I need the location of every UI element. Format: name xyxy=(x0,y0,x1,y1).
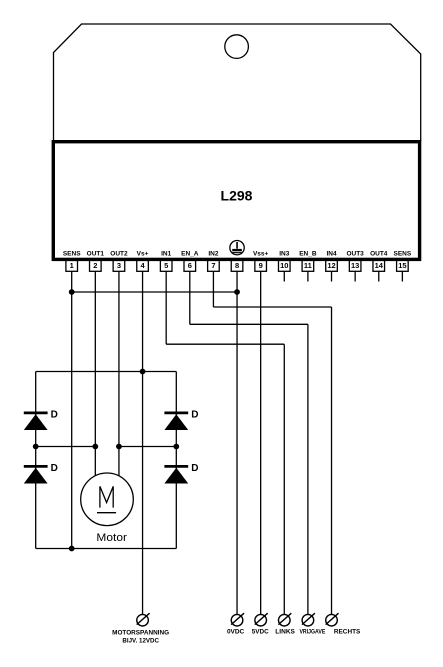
svg-text:2: 2 xyxy=(93,261,97,270)
pin 7 number box xyxy=(208,260,220,271)
wire stub pin12 (unconnected) xyxy=(331,271,333,281)
diode D upper-right xyxy=(164,413,188,430)
svg-text:13: 13 xyxy=(351,261,359,270)
svg-text:SENS: SENS xyxy=(63,250,81,257)
terminal MOTORSPANNING circle with slash xyxy=(137,613,150,626)
svg-text:IN4: IN4 xyxy=(326,250,337,257)
wire IN2 horizontal segment to RECHTS column xyxy=(213,306,331,308)
svg-text:Motor: Motor xyxy=(96,532,127,544)
svg-text:12: 12 xyxy=(327,261,335,270)
svg-text:EN_B: EN_B xyxy=(299,250,317,257)
svg-text:5: 5 xyxy=(164,261,168,270)
motor M glyph underline xyxy=(97,512,116,514)
pin 15 number box xyxy=(397,260,409,271)
node junction dot pin1 on SENS net xyxy=(69,289,75,295)
pin 1 number box xyxy=(66,260,78,271)
node junction dot left leg mid xyxy=(33,444,39,450)
svg-text:OUT4: OUT4 xyxy=(370,250,388,257)
wire bridge top rail (Vs+) xyxy=(36,371,177,373)
wire stub pin15 (unconnected) xyxy=(401,271,403,281)
pin 6 number box xyxy=(184,260,196,271)
IC U1 L298 package tab outline xyxy=(54,24,421,141)
terminal 0VDC circle with slash xyxy=(231,613,244,626)
wire LINKS column down to terminal xyxy=(283,344,285,614)
svg-text:RECHTS: RECHTS xyxy=(334,629,361,636)
svg-text:D: D xyxy=(51,463,58,474)
terminal RECHTS circle with slash xyxy=(326,613,339,626)
svg-text:IN2: IN2 xyxy=(208,250,219,257)
wire pin9 Vss+ down to 5VDC terminal xyxy=(260,271,262,614)
svg-text:D: D xyxy=(191,409,198,420)
IC U1 mounting hole xyxy=(225,35,249,59)
svg-text:VRIJGAVE: VRIJGAVE xyxy=(299,629,325,636)
svg-text:Vs+: Vs+ xyxy=(137,250,149,257)
wire bridge left leg xyxy=(35,372,37,549)
node junction dot right leg mid xyxy=(173,444,179,450)
pin 11 number box xyxy=(302,260,314,271)
wire bridge bottom rail (SENS) xyxy=(36,548,177,550)
wire stub pin10 (unconnected) xyxy=(283,271,285,281)
svg-text:Vss+: Vss+ xyxy=(253,250,269,257)
pin 4 number box xyxy=(137,260,149,271)
wire pin8 GND down to 0VDC terminal xyxy=(236,271,238,614)
svg-text:EN_A: EN_A xyxy=(181,250,199,257)
svg-text:D: D xyxy=(191,463,198,474)
pin 13 number box xyxy=(349,260,361,271)
wire VRIJGAVE column down to terminal xyxy=(307,324,309,614)
svg-text:0VDC: 0VDC xyxy=(227,629,245,636)
svg-text:OUT1: OUT1 xyxy=(87,250,105,257)
node junction dot pin8 on GND net xyxy=(234,289,240,295)
wire pin4 Vs+ down to MOTORSPANNING terminal xyxy=(142,271,144,614)
svg-text:3: 3 xyxy=(117,261,121,270)
svg-text:5VDC: 5VDC xyxy=(252,629,269,636)
svg-text:D: D xyxy=(51,409,58,420)
pin 9 number box xyxy=(255,260,267,271)
motor M1 circle xyxy=(81,473,134,526)
wire stub pin14 (unconnected) xyxy=(378,271,380,281)
svg-text:6: 6 xyxy=(188,261,192,270)
wire pin1 to pin8 SENS-to-GND horizontal xyxy=(72,291,237,293)
pin 5 number box xyxy=(160,260,172,271)
wire pin2 OUT1 down to motor left terminal xyxy=(94,271,96,476)
wire bridge right mid rail xyxy=(119,446,176,448)
svg-text:BIJV. 12VDC: BIJV. 12VDC xyxy=(122,638,159,645)
svg-text:IN1: IN1 xyxy=(161,250,172,257)
svg-text:SENS: SENS xyxy=(394,250,412,257)
svg-text:IN3: IN3 xyxy=(279,250,290,257)
svg-text:OUT3: OUT3 xyxy=(346,250,364,257)
wire bridge right leg xyxy=(175,372,177,549)
svg-text:15: 15 xyxy=(398,261,406,270)
diode D upper-left xyxy=(24,413,48,430)
pin 8 number box xyxy=(231,260,243,271)
ground symbol pin8 label (protective earth in circle) xyxy=(230,241,244,255)
svg-text:MOTORSPANNING: MOTORSPANNING xyxy=(112,629,169,636)
node junction dot OUT2 / motor right xyxy=(116,444,122,450)
wire bridge left mid rail xyxy=(36,446,96,448)
node junction dot OUT1 / motor left xyxy=(92,444,98,450)
wire stub pin13 (unconnected) xyxy=(354,271,356,281)
wire IN1 horizontal segment to LINKS column xyxy=(166,343,284,345)
svg-text:10: 10 xyxy=(280,261,288,270)
svg-text:OUT2: OUT2 xyxy=(110,250,128,257)
pin 3 number box xyxy=(113,260,125,271)
pin 12 number box xyxy=(326,260,338,271)
wire pin7 IN2 vertical segment xyxy=(212,271,214,307)
wire pin6 EN_A vertical segment xyxy=(189,271,191,324)
wire EN_A horizontal segment to VRIJGAVE column xyxy=(190,323,308,325)
wire stub pin11 (unconnected) xyxy=(307,271,309,281)
svg-text:L298: L298 xyxy=(221,188,253,204)
svg-text:9: 9 xyxy=(259,261,263,270)
svg-text:8: 8 xyxy=(235,261,239,270)
wire pin1 SENS down to bridge bottom rail xyxy=(71,271,73,548)
IC U1 body rectangle xyxy=(53,142,419,260)
svg-text:LINKS: LINKS xyxy=(275,629,295,636)
wire pin3 OUT2 down to motor right terminal xyxy=(118,271,120,476)
svg-text:1: 1 xyxy=(70,261,74,270)
diode D lower-right xyxy=(164,466,188,483)
pin 10 number box xyxy=(278,260,290,271)
terminal LINKS circle with slash xyxy=(278,613,291,626)
node junction dot Vs+ on bridge top rail xyxy=(140,369,146,375)
diode D lower-left xyxy=(24,466,48,483)
node junction dot SENS on bottom rail xyxy=(69,546,75,552)
pin 14 number box xyxy=(373,260,385,271)
pin 2 number box xyxy=(90,260,102,271)
svg-text:11: 11 xyxy=(304,261,312,270)
svg-text:7: 7 xyxy=(211,261,215,270)
motor M glyph xyxy=(100,486,113,507)
terminal VRIJGAVE circle with slash xyxy=(302,613,315,626)
svg-text:14: 14 xyxy=(375,261,384,270)
wire pin5 IN1 vertical segment xyxy=(165,271,167,344)
wire RECHTS column down to terminal xyxy=(331,307,333,614)
terminal 5VDC circle with slash xyxy=(255,613,268,626)
